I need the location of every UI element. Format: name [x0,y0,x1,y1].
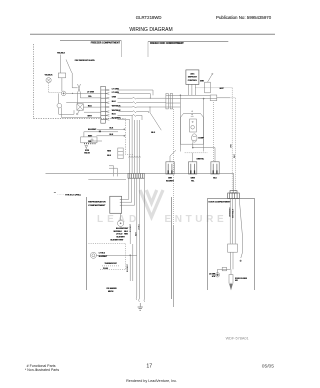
wire WHT [61,116,100,118]
feed to receptacle 2 [192,153,194,162]
svg-text:GRN/YEL: GRN/YEL [197,158,205,160]
receptacle 1 [166,162,174,174]
defrost timer stubs [188,84,195,95]
harness connector block P7 [128,174,144,179]
door switch [229,275,233,284]
svg-text:LT GRN: LT GRN [87,92,95,94]
defrost bi-metal diagonal lead [66,60,72,73]
svg-text:COMP: COMP [198,138,204,140]
terminals above relay [192,111,193,112]
svg-text:BLK: BLK [151,132,156,134]
svg-text:WIRING DIAGRAM: WIRING DIAGRAM [129,27,172,33]
svg-text:BLK/WHT: BLK/WHT [127,263,129,272]
svg-text:GLRT218WD: GLRT218WD [136,15,162,20]
svg-text:WHT/BLK: WHT/BLK [233,208,235,218]
svg-text:DOOR CLOSER: DOOR CLOSER [235,278,248,280]
refrigerator compartment left boundary [86,197,88,290]
wire down to ice maker [136,178,138,296]
dashed wire to fan [49,91,62,93]
crossover wires [78,84,81,93]
svg-text:05/05: 05/05 [262,364,275,370]
receptacle 3 [211,162,219,174]
wire to module pin3 [122,178,135,205]
inner verticals [130,244,133,281]
bus row3 ORN with splice [105,97,166,99]
svg-text:FREEZER COMPARTMENT: FREEZER COMPARTMENT [91,42,121,45]
svg-text:LT GRN: LT GRN [112,92,120,94]
wires below dispenser [230,252,233,269]
svg-text:VALVE: VALVE [84,151,91,154]
harness bundle verticals [130,115,140,173]
module pins [120,199,122,205]
svg-text:WDF-578A01: WDF-578A01 [226,337,249,341]
svg-text:COMPARTMENT: COMPARTMENT [88,204,106,207]
svg-text:LT BLU: LT BLU [99,252,106,254]
wire LT GRN [66,92,101,94]
compressor motor [192,134,197,142]
svg-text:ORN: ORN [112,97,117,99]
mullion heater [215,273,219,277]
fresh food compartment top boundary [148,41,228,43]
corner wire b [109,168,117,176]
dashed WHT wire [196,87,233,89]
svg-text:BLK/WHT: BLK/WHT [88,129,97,131]
svg-text:GRN/: GRN/ [191,178,196,180]
ice maker motor [90,244,136,281]
probe triangle [229,284,233,290]
switch box lead down [61,78,63,91]
svg-text:MECH: MECH [108,291,114,293]
watermark logo V [140,190,163,217]
defrost thermostat [57,103,62,108]
low ambient component [118,148,123,159]
bus row8 turning into bundle [105,119,129,123]
svg-text:Publication No: 5995435970: Publication No: 5995435970 [216,15,272,20]
svg-text:WHT/BLK: WHT/BLK [112,110,121,112]
bus row4 BLK with splice [105,102,166,104]
freezer compartment right wall [120,41,122,58]
freezer compartment left dashed boundary [33,44,35,119]
svg-text:YEL: YEL [191,180,194,182]
connector pair [166,94,168,109]
svg-text:BLK/WHT: BLK/WHT [112,118,122,120]
svg-text:DEFROST: DEFROST [188,77,198,79]
freezer/fresh food divider dashed [126,120,134,155]
svg-text:REFRIGERATOR: REFRIGERATOR [88,200,106,203]
svg-text:ADC: ADC [190,72,195,75]
second harness wire [88,178,126,180]
evaporator fan motor [61,91,66,96]
svg-text:BLK/WHT: BLK/WHT [99,256,108,258]
dispenser box [228,244,238,252]
svg-text:YEL/BLK: YEL/BLK [44,75,53,77]
bus row6 with splice turning down [105,111,149,113]
wire YEL/BLK drop to defrost limit switch [60,55,62,74]
adaptive defrost control box [186,70,199,85]
heater leads up [77,93,79,104]
wire BLK [83,106,101,108]
long bus wire left [46,173,129,175]
svg-text:CONTROL: CONTROL [188,80,198,82]
svg-text:HTR # S.V. (PNC): HTR # S.V. (PNC) [65,194,81,196]
svg-text:BLK/WHT: BLK/WHT [166,180,175,182]
door connector [228,191,240,199]
freezer compartment bottom dashed boundary [34,118,126,120]
feed to receptacle 1 [170,150,176,162]
svg-text:ENTURE: ENTURE [165,214,228,225]
svg-text:BLK: BLK [88,105,93,107]
ice maker motor circle [118,213,124,226]
door wires down [230,199,235,244]
svg-text:DOOR COMPARTMENT: DOOR COMPARTMENT [209,200,232,203]
svg-text:Rendered by LeadVenture, Inc.: Rendered by LeadVenture, Inc. [126,379,177,383]
wire down long [138,178,140,298]
dashed ground jumper [185,152,208,154]
wire row6 stub [84,111,101,113]
wire BLK/WHT mid [97,128,125,130]
defrost thermostat box [205,82,211,93]
svg-text:BLK: BLK [112,101,117,103]
wire to module pin2 [122,178,132,202]
svg-text:YEL/BLK: YEL/BLK [57,53,66,55]
vertical feed left [179,95,181,151]
bus row5 WHT/BLK with splice [105,106,166,108]
svg-text:LEAD: LEAD [97,214,140,225]
svg-text:* Non-Illustrated Parts: * Non-Illustrated Parts [25,368,59,372]
defrost terminator diagonal [208,74,213,82]
wire to module pin1 [122,178,129,199]
diagonal wire [239,199,242,258]
heater diagonal lead with terminal [78,110,80,113]
bus row7 turning into bundle [105,115,142,120]
dashed vertical 2 [234,98,236,193]
refrigerator compartment right boundary [171,197,173,299]
corner wire a [109,166,114,177]
main harness connector column [101,86,106,123]
svg-text:THERMOSTAT: THERMOSTAT [105,262,118,265]
header rule [30,33,275,35]
water valve harness wire [84,132,118,137]
bi-metal lead down [72,73,77,88]
thermostat leads [59,93,74,117]
svg-text:ORN/WHT: ORN/WHT [229,207,231,217]
ground symbol [138,303,143,310]
freezer compartment top boundary [60,40,121,42]
svg-text:BLK/WHT: BLK/WHT [130,223,132,232]
svg-text:FRZ DEFROST BI-MTL: FRZ DEFROST BI-MTL [75,60,96,62]
diagonal branch wire [150,107,161,130]
svg-text:PLUG: PLUG [103,268,109,270]
vertical feed right [203,99,205,152]
leader dots [58,193,65,195]
wire YEL mid [88,140,102,142]
door compartment box [208,199,255,291]
svg-text:**: ** [54,191,56,195]
bus row2 [105,93,150,99]
water valve assembly [81,137,97,149]
dashed wires to door [196,88,236,193]
freezer lamp circle [46,78,51,83]
wire to mullion heater [218,268,231,270]
fresh food compartment left wall [147,42,149,58]
svg-text:BLK/WHT WHT: BLK/WHT WHT [111,240,125,242]
dashed neutral drop [213,102,215,162]
ice maker dashed boundary [88,244,125,270]
wire YEL [80,93,100,98]
bus extensions [166,95,230,107]
dashed vertical 1 [231,88,233,193]
wire WHT mid [97,135,125,137]
hook terminals [136,297,144,302]
defrost heater box [77,104,83,110]
dashed horizontal 2 [230,97,236,99]
dashed drop from connector [173,109,175,225]
interior wire right [173,225,175,307]
svg-text:BLK: BLK [112,114,117,116]
thermostat dashes [102,265,120,267]
bus row1 LT GRN [105,89,153,95]
lamp dashed lead down [48,83,50,93]
svg-text:LT BLU: LT BLU [138,223,140,230]
svg-text:WHT/BLK: WHT/BLK [114,231,123,233]
compressor housing [180,111,215,162]
relay box [190,119,197,132]
bundle inline chevrons [129,156,141,158]
svg-text:FRESH FOOD COMPARTMENT: FRESH FOOD COMPARTMENT [150,42,184,45]
svg-text:BLK/WHT: BLK/WHT [117,237,126,239]
icemaker control module [110,196,122,213]
svg-text:17: 17 [146,363,152,369]
motor lead down [192,142,194,147]
svg-text:LT GRN: LT GRN [112,88,120,90]
svg-text:LT BLU: LT BLU [116,234,123,236]
wire to right plug [193,148,215,162]
long bus wire right [144,174,233,193]
receptacle 2 [189,162,197,174]
wire with label down [144,178,146,298]
wire stub row3 [66,102,101,104]
svg-text:ICE MAKER: ICE MAKER [107,287,118,290]
junction box [210,95,217,101]
svg-text:WHT/BLK: WHT/BLK [112,105,121,107]
defrost limit switch box [58,73,65,78]
